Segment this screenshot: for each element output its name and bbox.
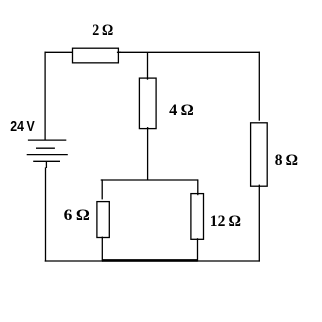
wire bottom thick segment (parallel branch bottom): [102, 259, 198, 262]
wire 4ohm top lead: [147, 52, 149, 79]
svg-text:12 Ω: 12 Ω: [210, 213, 241, 230]
wire 12ohm bottom lead: [197, 238, 199, 261]
resistor R1 2ohm box: [73, 48, 119, 63]
svg-text:4 Ω: 4 Ω: [169, 102, 194, 119]
svg-text:2 Ω: 2 Ω: [92, 22, 113, 39]
wire left rail lower: [45, 167, 47, 261]
wire 4ohm bottom lead: [147, 127, 149, 180]
resistor R3 6ohm box: [97, 202, 109, 238]
wire top rail: [45, 51, 260, 53]
wire 12ohm top lead tick over box edge: [197, 194, 199, 195]
resistor R4 12ohm box: [191, 194, 204, 240]
battery plate 3 long: [27, 154, 68, 156]
wire rail tick inside 2ohm box right edge: [117, 51, 121, 53]
svg-text:8 Ω: 8 Ω: [275, 152, 298, 169]
battery plate 2 short: [36, 147, 55, 149]
wire 12ohm top lead: [197, 179, 199, 195]
wire right rail upper: [258, 52, 260, 121]
wire 6ohm top lead: [101, 179, 103, 199]
svg-text:24 V: 24 V: [10, 118, 34, 135]
wire battery lower stub: [45, 161, 47, 168]
wire left rail upper: [44, 52, 46, 140]
svg-text:6 Ω: 6 Ω: [64, 207, 90, 224]
resistor R2 4ohm box: [139, 78, 156, 129]
wire 4ohm lead ticks over box edges: [147, 78, 149, 79]
wire right rail lower: [258, 185, 260, 262]
wire 6ohm bottom lead: [101, 237, 103, 262]
wire 8ohm bottom lead tick over box edge: [258, 185, 260, 187]
battery plate 4 short: [33, 160, 60, 162]
wire bottom rail: [45, 260, 260, 262]
wire parallel section top bar: [101, 179, 198, 181]
resistor R5 8ohm box: [251, 123, 268, 186]
battery 24 V plate 1 long: [28, 139, 66, 141]
